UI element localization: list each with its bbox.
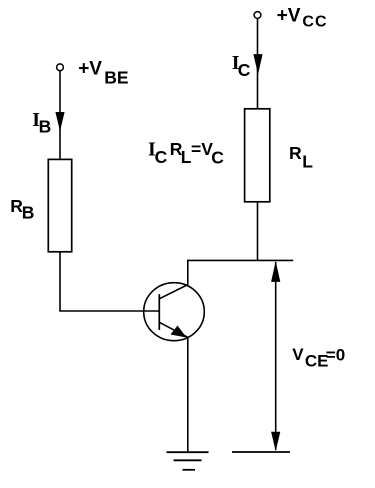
node line collector (187, 259, 293, 261)
label IC (232, 52, 251, 80)
current arrow IC (253, 54, 262, 74)
ground bar 3 (183, 469, 196, 471)
label +VCC (277, 5, 328, 30)
label VCE=0 (292, 345, 345, 370)
bottom reference line (232, 451, 290, 453)
label IC RL = VC (148, 139, 224, 168)
svg-text:BE: BE (104, 68, 128, 88)
transistor Q1 emitter arrowhead (171, 326, 187, 338)
svg-text:+V: +V (277, 5, 301, 26)
svg-text:C: C (211, 148, 224, 168)
VCE arrowhead up (271, 261, 280, 282)
svg-text:B: B (39, 117, 52, 137)
wire from +VBE terminal to RB (59, 71, 61, 159)
label IB (32, 109, 51, 137)
label RL (289, 143, 313, 171)
svg-text:C: C (238, 60, 251, 80)
svg-text:L: L (302, 151, 313, 171)
resistor RL (245, 109, 270, 202)
wire from RL to node (257, 203, 259, 261)
svg-text:R: R (289, 143, 302, 163)
label +VBE (78, 58, 128, 87)
svg-text:=V: =V (191, 139, 213, 159)
ground bar 1 (167, 451, 209, 453)
current arrow IB (55, 112, 64, 131)
svg-text:C: C (155, 147, 168, 167)
svg-text:B: B (22, 203, 35, 223)
wire collector up to node (187, 260, 189, 284)
wire emitter down to ground (187, 337, 189, 452)
transistor Q1 collector stroke (159, 285, 188, 299)
transistor Q1 emitter stroke (159, 322, 188, 337)
transistor Q1 circle (144, 283, 205, 341)
label RB (10, 196, 34, 222)
svg-text:CC: CC (302, 13, 327, 30)
svg-text:+V: +V (78, 58, 102, 79)
terminal +VCC (254, 12, 261, 19)
resistor RB (48, 159, 71, 251)
wire from +VCC to RL (257, 19, 259, 108)
ground bar 2 (174, 459, 202, 461)
terminal +VBE (57, 64, 64, 71)
VCE measure arrow line (275, 262, 277, 450)
svg-text:=0: =0 (326, 346, 345, 365)
svg-text:V: V (292, 345, 304, 364)
wire from RB to base corner (60, 253, 159, 312)
VCE arrowhead down (271, 432, 280, 452)
transistor Q1 base bar (158, 294, 160, 330)
